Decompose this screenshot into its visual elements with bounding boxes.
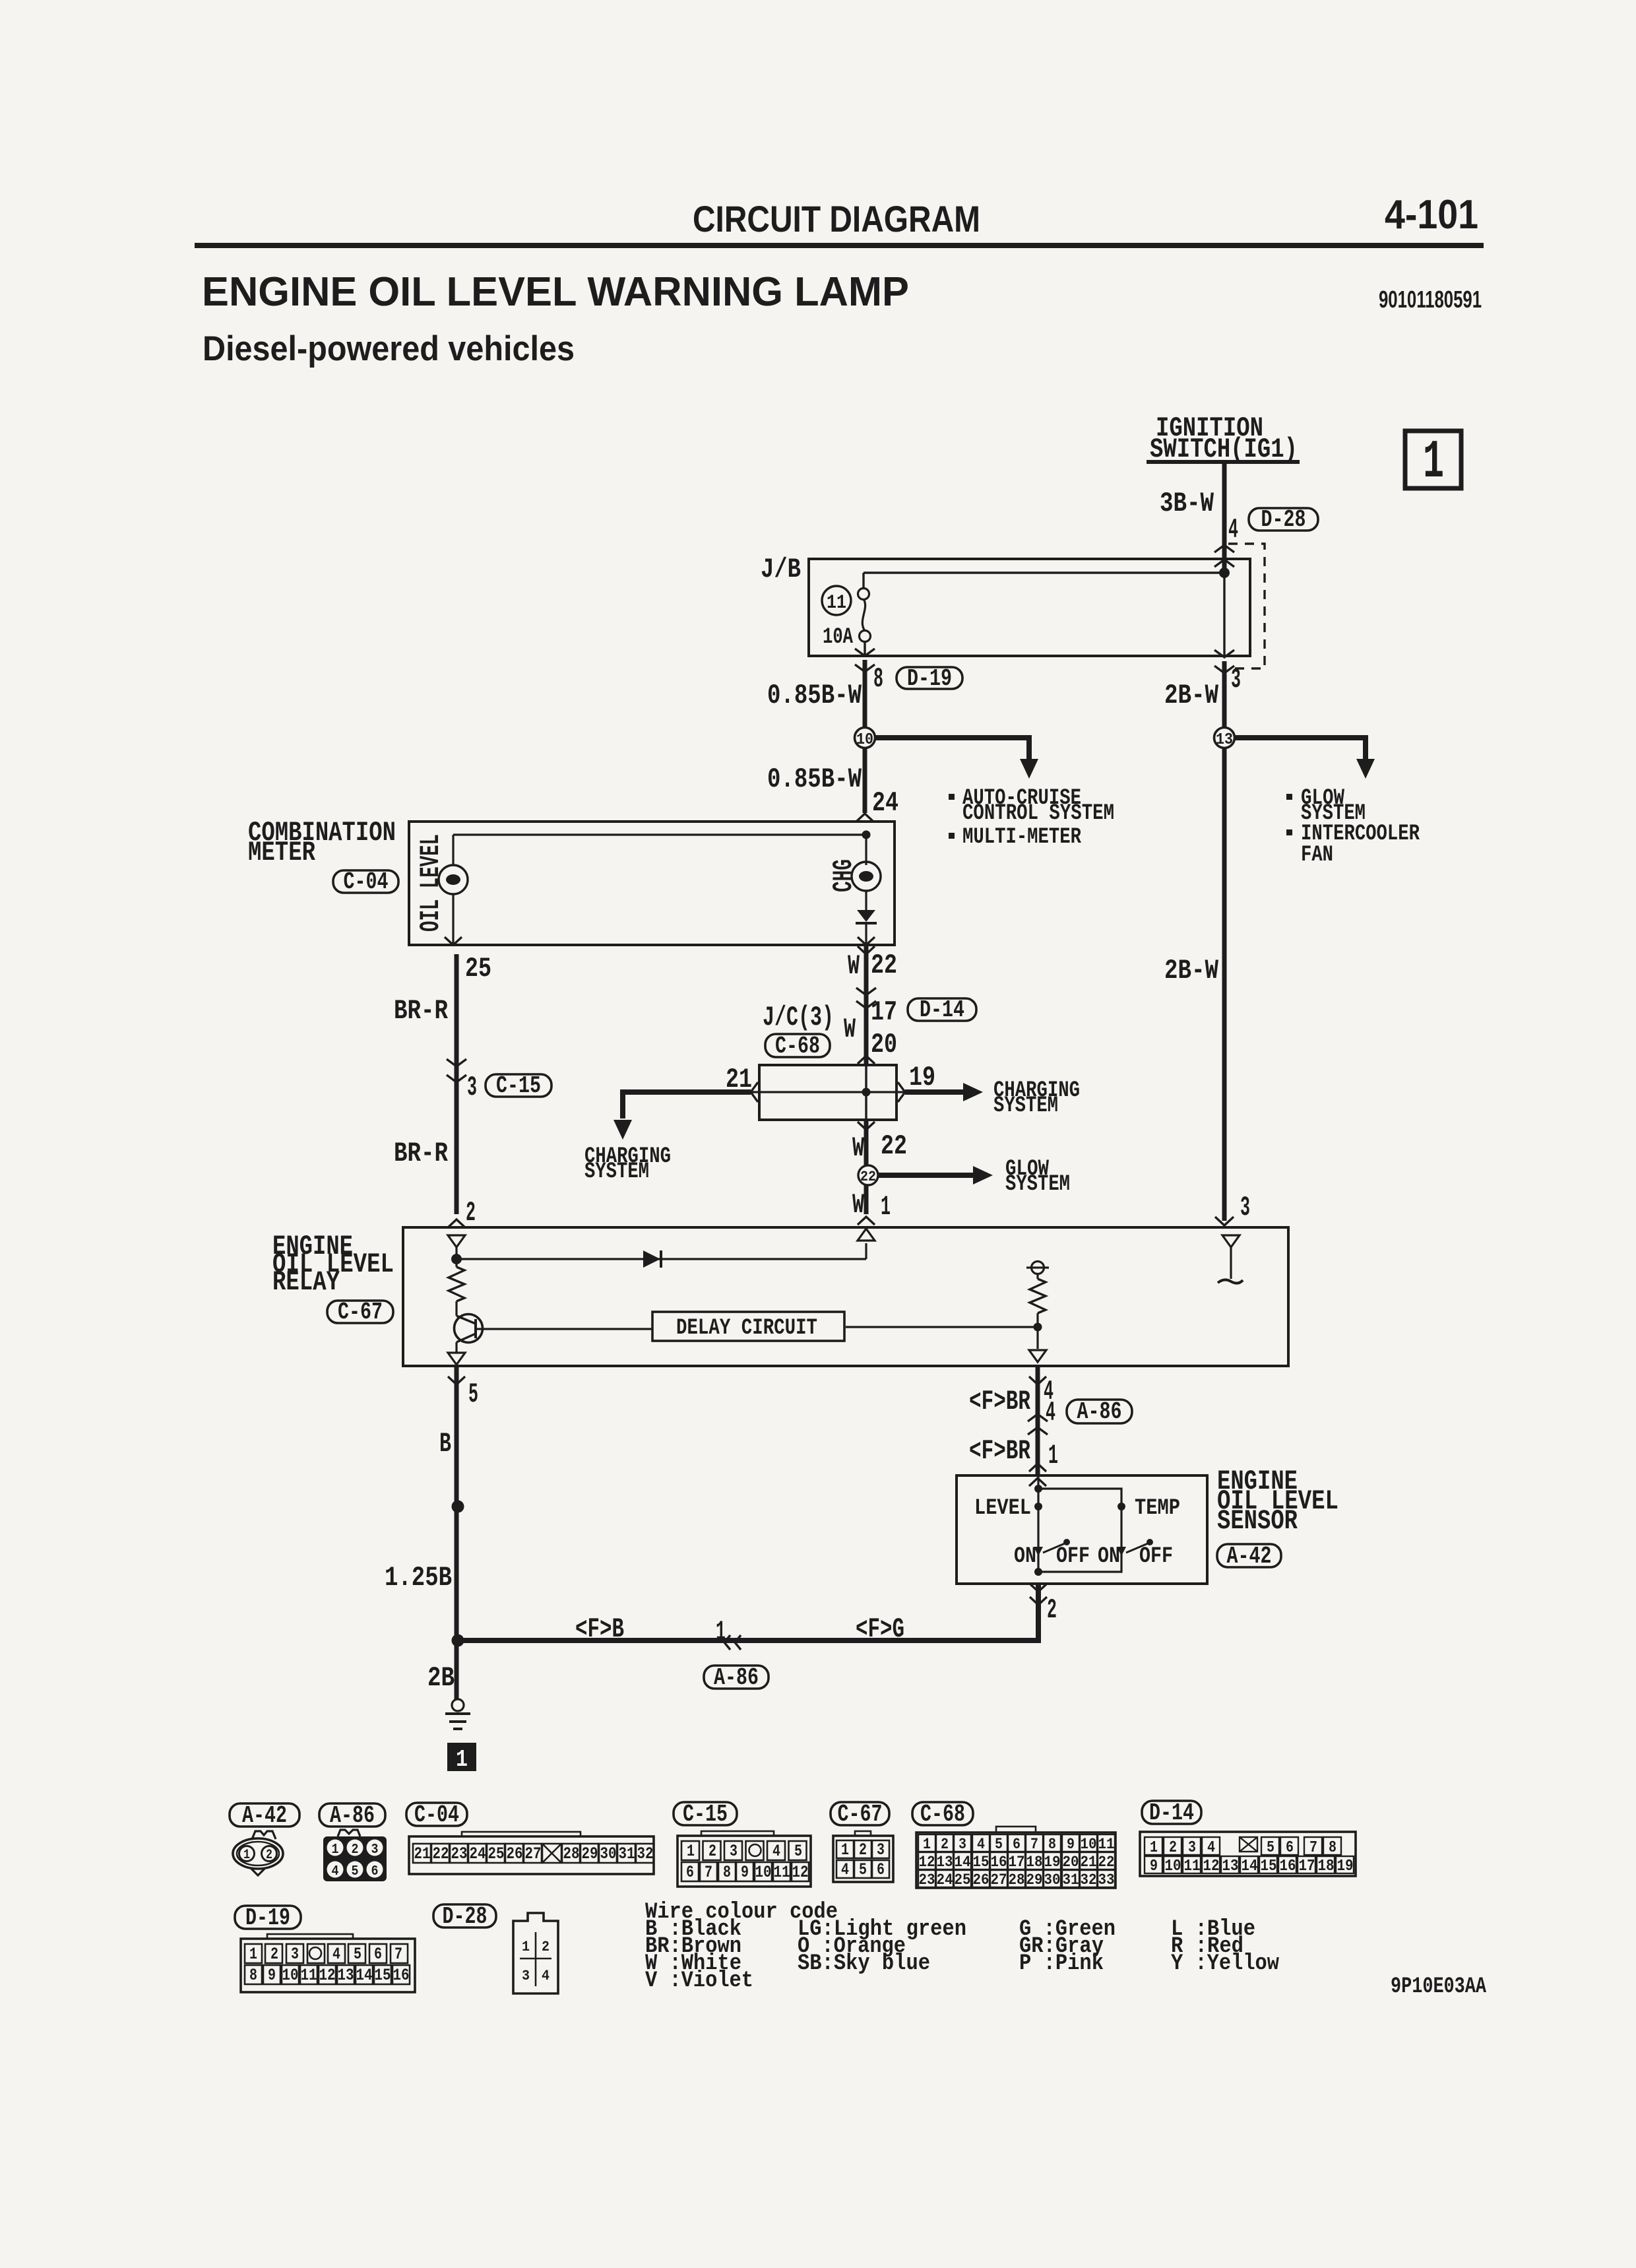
wire W below J/C(3) [858, 1122, 875, 1130]
svg-text:4: 4 [1046, 1397, 1055, 1429]
svg-text:3: 3 [1188, 1839, 1196, 1857]
splice ring 13 [1214, 728, 1235, 748]
svg-text:A-42: A-42 [1227, 1543, 1272, 1570]
svg-text:SYSTEM: SYSTEM [584, 1159, 649, 1184]
svg-text:14: 14 [955, 1854, 971, 1871]
svg-text:25: 25 [465, 953, 491, 985]
connector mate symbol pin 17 D-14 [856, 988, 876, 995]
svg-text:C-15: C-15 [683, 1801, 728, 1828]
svg-text:ON: ON [1098, 1544, 1120, 1569]
svg-text:11: 11 [301, 1966, 317, 1985]
svg-text:3: 3 [730, 1842, 738, 1861]
svg-text:P :Pink: P :Pink [1019, 1951, 1104, 1976]
svg-text:LEVEL: LEVEL [974, 1496, 1031, 1521]
wire J/B internal bus [864, 571, 1224, 573]
connector ref C-67 [327, 1301, 393, 1323]
svg-text:1: 1 [1150, 1839, 1158, 1857]
svg-text:C-68: C-68 [775, 1033, 820, 1060]
svg-text:9: 9 [1150, 1858, 1158, 1875]
svg-text:33: 33 [1098, 1871, 1115, 1889]
branch to charging system (right) [905, 1089, 964, 1095]
svg-text:6: 6 [1013, 1836, 1021, 1853]
svg-text:26: 26 [507, 1844, 523, 1863]
svg-text:9: 9 [741, 1863, 749, 1882]
svg-text:11: 11 [1098, 1836, 1115, 1853]
connector ref C-68 [765, 1034, 830, 1057]
oil level warning lamp [452, 835, 454, 865]
svg-text:24: 24 [470, 1844, 486, 1863]
svg-text:METER: METER [248, 837, 316, 868]
svg-text:1: 1 [1423, 432, 1444, 493]
svg-text:8: 8 [249, 1966, 257, 1985]
svg-text:12: 12 [792, 1863, 809, 1882]
svg-text:90101180591: 90101180591 [1379, 286, 1482, 313]
svg-text:W: W [852, 1189, 865, 1221]
svg-text:1: 1 [1048, 1440, 1058, 1472]
svg-text:16: 16 [393, 1966, 410, 1985]
svg-text:1: 1 [881, 1191, 891, 1223]
svg-text:C-67: C-67 [338, 1299, 383, 1326]
svg-text:5: 5 [995, 1836, 1003, 1853]
svg-text:C-04: C-04 [414, 1801, 459, 1829]
junction connector J/C(3) box [759, 1065, 897, 1120]
svg-text:D-28: D-28 [1261, 506, 1306, 533]
connector ref C-04 [333, 870, 398, 893]
temp switch [1117, 1547, 1126, 1556]
connector ref D-19 [897, 667, 962, 689]
svg-text:15: 15 [375, 1966, 391, 1985]
ground index black square 1 [447, 1743, 476, 1771]
svg-text:14: 14 [356, 1966, 373, 1985]
svg-text:12: 12 [919, 1854, 935, 1871]
svg-text:3: 3 [522, 1968, 530, 1984]
level switch [1034, 1547, 1043, 1556]
svg-text:1: 1 [841, 1840, 849, 1860]
svg-text:4: 4 [1228, 514, 1238, 546]
svg-text:OFF: OFF [1139, 1544, 1173, 1569]
delay circuit block [652, 1312, 844, 1341]
svg-text:SENSOR: SENSOR [1217, 1505, 1298, 1537]
svg-text:A-86: A-86 [1077, 1398, 1122, 1425]
svg-text:31: 31 [1063, 1871, 1079, 1889]
connector D-19 drawing [235, 1906, 301, 1929]
svg-text:16: 16 [991, 1854, 1007, 1871]
diode in meter [865, 891, 867, 910]
connector D-28 drawing [433, 1904, 496, 1928]
svg-text:4: 4 [542, 1968, 550, 1984]
label auto-cruise control system / multi-meter [949, 794, 955, 800]
svg-text:32: 32 [1081, 1871, 1097, 1889]
relay sensor branch internals [1032, 1262, 1044, 1274]
svg-text:SYSTEM: SYSTEM [993, 1093, 1058, 1118]
wire BR-R from meter pin 25 down to relay pin 2 [455, 954, 459, 1214]
wire through J/C(3) [751, 1091, 905, 1093]
svg-text:W: W [844, 1014, 856, 1045]
connector ref D-14 [908, 998, 976, 1021]
svg-text:D-19: D-19 [245, 1904, 290, 1931]
svg-text:2: 2 [270, 1945, 278, 1964]
svg-text:W: W [852, 1132, 865, 1164]
svg-text:10: 10 [282, 1966, 299, 1985]
svg-text:1.25B: 1.25B [385, 1562, 452, 1594]
svg-text:D-14: D-14 [920, 996, 964, 1023]
svg-text:6: 6 [374, 1945, 382, 1964]
svg-text:D-19: D-19 [907, 665, 952, 692]
connector mate symbol A-86 pin 4/1 [1028, 1414, 1048, 1421]
svg-text:20: 20 [871, 1029, 897, 1060]
branch to charging system (left) [623, 1092, 751, 1118]
svg-text:13: 13 [937, 1854, 953, 1871]
svg-text:1: 1 [456, 1746, 468, 1773]
svg-text:21: 21 [414, 1844, 431, 1863]
svg-text:2: 2 [859, 1840, 867, 1860]
svg-text:29: 29 [1026, 1871, 1043, 1889]
svg-text:<F>BR: <F>BR [969, 1435, 1031, 1467]
svg-text:13: 13 [1216, 731, 1233, 749]
svg-text:24: 24 [872, 787, 898, 819]
svg-text:2: 2 [941, 1836, 949, 1853]
wire 2B-W down from J/B [1222, 661, 1227, 728]
svg-text:8: 8 [723, 1863, 731, 1882]
engine oil level sensor box A-42 [957, 1475, 1207, 1584]
svg-text:2: 2 [542, 1939, 550, 1955]
svg-text:BR-R: BR-R [394, 1138, 449, 1169]
splice ring 22 [858, 1165, 878, 1185]
svg-text:D-14: D-14 [1149, 1799, 1194, 1827]
svg-text:2B-W: 2B-W [1164, 680, 1219, 711]
connector mate symbol pin 3 C-15 [447, 1059, 466, 1066]
svg-text:4: 4 [1207, 1839, 1215, 1857]
svg-text:A-86: A-86 [330, 1802, 375, 1829]
svg-text:8: 8 [1048, 1836, 1056, 1853]
svg-text:<F>G: <F>G [856, 1613, 904, 1645]
svg-text:13: 13 [338, 1966, 354, 1985]
wire 0.85B-W from J/B fuse down [863, 660, 867, 728]
svg-text:SB:Sky blue: SB:Sky blue [798, 1951, 930, 1976]
svg-text:4: 4 [841, 1860, 849, 1879]
svg-text:CIRCUIT DIAGRAM: CIRCUIT DIAGRAM [693, 198, 980, 240]
junction block J/B box [809, 559, 1250, 656]
connector C-15 drawing [674, 1802, 737, 1825]
svg-text:23: 23 [451, 1844, 468, 1863]
svg-text:5: 5 [859, 1860, 867, 1879]
fuse 11 10A [862, 573, 864, 589]
fuse number circle 11 [822, 586, 851, 615]
svg-text:17: 17 [1009, 1854, 1025, 1871]
svg-text:22: 22 [860, 1169, 876, 1185]
svg-text:J/C(3): J/C(3) [763, 1002, 834, 1033]
svg-text:6: 6 [371, 1864, 379, 1879]
label glow system / intercooler fan [1286, 794, 1292, 800]
wire B from relay pin 5 to ground [455, 1366, 459, 1700]
svg-text:11: 11 [827, 592, 846, 614]
svg-text:22: 22 [1098, 1854, 1115, 1871]
svg-text:30: 30 [600, 1844, 617, 1863]
svg-text:A-86: A-86 [714, 1664, 759, 1691]
svg-text:17: 17 [871, 996, 897, 1028]
svg-text:22: 22 [433, 1844, 449, 1863]
svg-text:4: 4 [977, 1836, 985, 1853]
svg-text:5: 5 [794, 1842, 802, 1861]
svg-text:22: 22 [881, 1130, 907, 1162]
svg-text:2: 2 [466, 1197, 476, 1229]
svg-text:1: 1 [243, 1848, 250, 1863]
svg-text:1: 1 [249, 1945, 257, 1964]
svg-text:3: 3 [1231, 664, 1241, 696]
svg-text:21: 21 [1081, 1854, 1097, 1871]
svg-text:12: 12 [319, 1966, 336, 1985]
svg-text:16: 16 [1280, 1858, 1296, 1875]
svg-text:C-04: C-04 [344, 868, 389, 895]
svg-text:2: 2 [1169, 1839, 1177, 1857]
svg-text:6: 6 [877, 1860, 885, 1879]
relay output pin 3 internals (coil hook) [1222, 1235, 1240, 1247]
svg-text:1: 1 [332, 1842, 339, 1858]
svg-text:Y :Yellow: Y :Yellow [1171, 1951, 1280, 1976]
svg-text:W: W [848, 950, 860, 982]
wire 0.85B-W to combination meter [863, 748, 867, 813]
svg-text:4-101: 4-101 [1385, 192, 1478, 238]
svg-text:ENGINE OIL LEVEL WARNING LAMP: ENGINE OIL LEVEL WARNING LAMP [202, 269, 909, 315]
svg-text:14: 14 [1242, 1858, 1258, 1875]
transistor Q1 [455, 1314, 483, 1343]
wire J/B pass-through down to pin 3 [1223, 573, 1225, 656]
svg-text:20: 20 [1063, 1854, 1079, 1871]
svg-text:FAN: FAN [1301, 843, 1333, 868]
svg-text:5: 5 [352, 1864, 359, 1879]
svg-text:BR-R: BR-R [394, 995, 449, 1027]
branch to glow system / intercooler fan [1235, 738, 1366, 759]
wire sensor level branch [1037, 1475, 1039, 1572]
svg-text:19: 19 [1044, 1854, 1061, 1871]
svg-text:OFF: OFF [1056, 1544, 1090, 1569]
svg-text:4: 4 [332, 1864, 339, 1879]
svg-text:C-68: C-68 [920, 1801, 965, 1828]
relay input pin 2 internals [448, 1235, 465, 1247]
svg-text:<F>BR: <F>BR [969, 1386, 1031, 1417]
svg-text:CONTROL SYSTEM: CONTROL SYSTEM [962, 801, 1114, 826]
J/B dashed extension [1228, 544, 1265, 668]
svg-text:15: 15 [1261, 1858, 1277, 1875]
svg-text:ON: ON [1014, 1544, 1036, 1569]
svg-text:25: 25 [488, 1844, 505, 1863]
svg-text:18: 18 [1318, 1858, 1335, 1875]
svg-text:27: 27 [525, 1844, 542, 1863]
sensor internal box [1038, 1489, 1121, 1572]
connector C-68 drawing [912, 1802, 973, 1825]
svg-text:2B: 2B [427, 1662, 455, 1694]
wire meter internal bus [453, 833, 866, 835]
connector C-04 drawing [406, 1803, 467, 1826]
wire W from meter pin 22 [858, 946, 875, 954]
svg-text:J/B: J/B [761, 554, 801, 585]
svg-text:18: 18 [1026, 1854, 1043, 1871]
svg-text:29: 29 [582, 1844, 598, 1863]
ground symbol [452, 1699, 464, 1711]
svg-text:1: 1 [522, 1939, 530, 1955]
svg-text:3B-W: 3B-W [1160, 488, 1214, 519]
connector ref A-42 [1217, 1544, 1281, 1567]
engine oil level relay box C-67 [403, 1227, 1288, 1366]
wire through J/C(3) vertical [865, 1065, 867, 1120]
svg-text:10A: 10A [823, 625, 853, 650]
connector ref A-86 [704, 1666, 769, 1689]
svg-text:OIL LEVEL: OIL LEVEL [415, 834, 447, 932]
svg-text:23: 23 [919, 1871, 935, 1889]
sensor output pin 2 [1030, 1584, 1047, 1592]
CHG warning lamp [865, 835, 867, 865]
svg-text:2B-W: 2B-W [1164, 955, 1219, 987]
svg-text:3: 3 [1240, 1192, 1250, 1223]
svg-text:19: 19 [1337, 1858, 1354, 1875]
svg-text:26: 26 [973, 1871, 990, 1889]
svg-text:10: 10 [755, 1863, 772, 1882]
svg-text:3: 3 [291, 1945, 299, 1964]
svg-text:RELAY: RELAY [272, 1266, 340, 1298]
svg-text:MULTI-METER: MULTI-METER [962, 825, 1081, 850]
svg-text:5: 5 [354, 1945, 362, 1964]
svg-text:17: 17 [1299, 1858, 1315, 1875]
svg-text:Diesel-powered vehicles: Diesel-powered vehicles [203, 329, 575, 368]
wire 2B-W down to engine oil level relay [1222, 748, 1227, 1221]
svg-text:CHG: CHG [828, 859, 860, 892]
svg-text:9P10E03AA: 9P10E03AA [1391, 1974, 1486, 1999]
svg-text:3: 3 [959, 1836, 966, 1853]
connector C-67 drawing [831, 1802, 889, 1825]
connector mate symbol pin 8 D-19 [855, 649, 875, 656]
connector mate symbol at D-28 pin 4 [1214, 545, 1234, 552]
svg-text:7: 7 [1030, 1836, 1038, 1853]
svg-text:5: 5 [1267, 1839, 1274, 1857]
svg-text:7: 7 [394, 1945, 402, 1964]
connector A-86 drawing [319, 1803, 385, 1827]
svg-text:6: 6 [1286, 1839, 1294, 1857]
wire 3B-W from ignition switch down to J/B [1222, 464, 1227, 573]
svg-text:1: 1 [923, 1836, 931, 1853]
svg-text:30: 30 [1044, 1871, 1061, 1889]
svg-text:25: 25 [955, 1871, 971, 1889]
svg-text:4: 4 [772, 1842, 780, 1861]
svg-text:28: 28 [563, 1844, 580, 1863]
connector D-14 drawing [1142, 1801, 1201, 1824]
svg-text:0.85B-W: 0.85B-W [767, 763, 862, 795]
svg-text:24: 24 [937, 1871, 953, 1889]
svg-text:10: 10 [1081, 1836, 1097, 1853]
combination meter box C-04 [409, 822, 895, 945]
svg-text:C-67: C-67 [838, 1801, 883, 1828]
splice ring 10 [855, 728, 875, 748]
sheet index box 1 [1405, 431, 1461, 488]
svg-text:SYSTEM: SYSTEM [1005, 1172, 1070, 1197]
svg-text:31: 31 [619, 1844, 635, 1863]
svg-text:9: 9 [268, 1966, 276, 1985]
connector A-42 drawing [230, 1803, 299, 1827]
svg-text:6: 6 [686, 1863, 694, 1882]
connector ref D-28 [1249, 508, 1318, 531]
svg-text:8: 8 [1329, 1839, 1337, 1857]
svg-text:5: 5 [468, 1378, 478, 1410]
svg-text:7: 7 [705, 1863, 712, 1882]
svg-text:2: 2 [352, 1842, 359, 1858]
connector ref C-15 [486, 1074, 551, 1097]
svg-text:12: 12 [1203, 1858, 1220, 1875]
svg-text:0.85B-W: 0.85B-W [767, 680, 862, 711]
diode D1 on latch line [456, 1258, 866, 1260]
svg-text:1: 1 [687, 1842, 695, 1861]
svg-text:10: 10 [1165, 1858, 1181, 1875]
connector ref A-86 [1067, 1400, 1132, 1423]
svg-text:10: 10 [856, 731, 873, 749]
branch to glow system [878, 1173, 973, 1178]
svg-text:9: 9 [1067, 1836, 1075, 1853]
svg-text:4: 4 [332, 1945, 340, 1964]
svg-text:11: 11 [1184, 1858, 1201, 1875]
svg-text:32: 32 [637, 1844, 654, 1863]
svg-text:TEMP: TEMP [1135, 1496, 1180, 1521]
svg-text:27: 27 [991, 1871, 1007, 1889]
svg-text:3: 3 [371, 1842, 379, 1858]
svg-text:C-15: C-15 [496, 1072, 541, 1099]
connector mate symbol pin 3 D-28 [1214, 650, 1234, 657]
svg-text:2: 2 [266, 1848, 272, 1863]
svg-text:8: 8 [873, 663, 883, 695]
connector mate symbol A-86 pin 1 (horizontal) [724, 1635, 730, 1650]
svg-text:19: 19 [909, 1062, 935, 1093]
svg-text:13: 13 [1222, 1858, 1239, 1875]
svg-text:15: 15 [973, 1854, 990, 1871]
svg-text:28: 28 [1009, 1871, 1025, 1889]
svg-text:2: 2 [708, 1842, 716, 1861]
svg-text:V :Violet: V :Violet [645, 1968, 753, 1993]
wire <F>BR relay pin 4 to sensor [1036, 1366, 1040, 1475]
svg-text:11: 11 [774, 1863, 790, 1882]
svg-text:7: 7 [1309, 1839, 1317, 1857]
branch to auto-cruise / multi-meter [875, 738, 1029, 759]
svg-text:DELAY CIRCUIT: DELAY CIRCUIT [676, 1316, 817, 1341]
header rule [195, 243, 1484, 248]
svg-text:22: 22 [871, 950, 897, 981]
svg-text:D-28: D-28 [443, 1903, 488, 1930]
svg-text:A-42: A-42 [242, 1802, 287, 1829]
svg-text:3: 3 [467, 1072, 477, 1103]
svg-text:2: 2 [1047, 1594, 1057, 1626]
svg-text:3: 3 [877, 1840, 885, 1860]
svg-text:B: B [439, 1428, 451, 1460]
svg-text:<F>B: <F>B [575, 1613, 624, 1645]
